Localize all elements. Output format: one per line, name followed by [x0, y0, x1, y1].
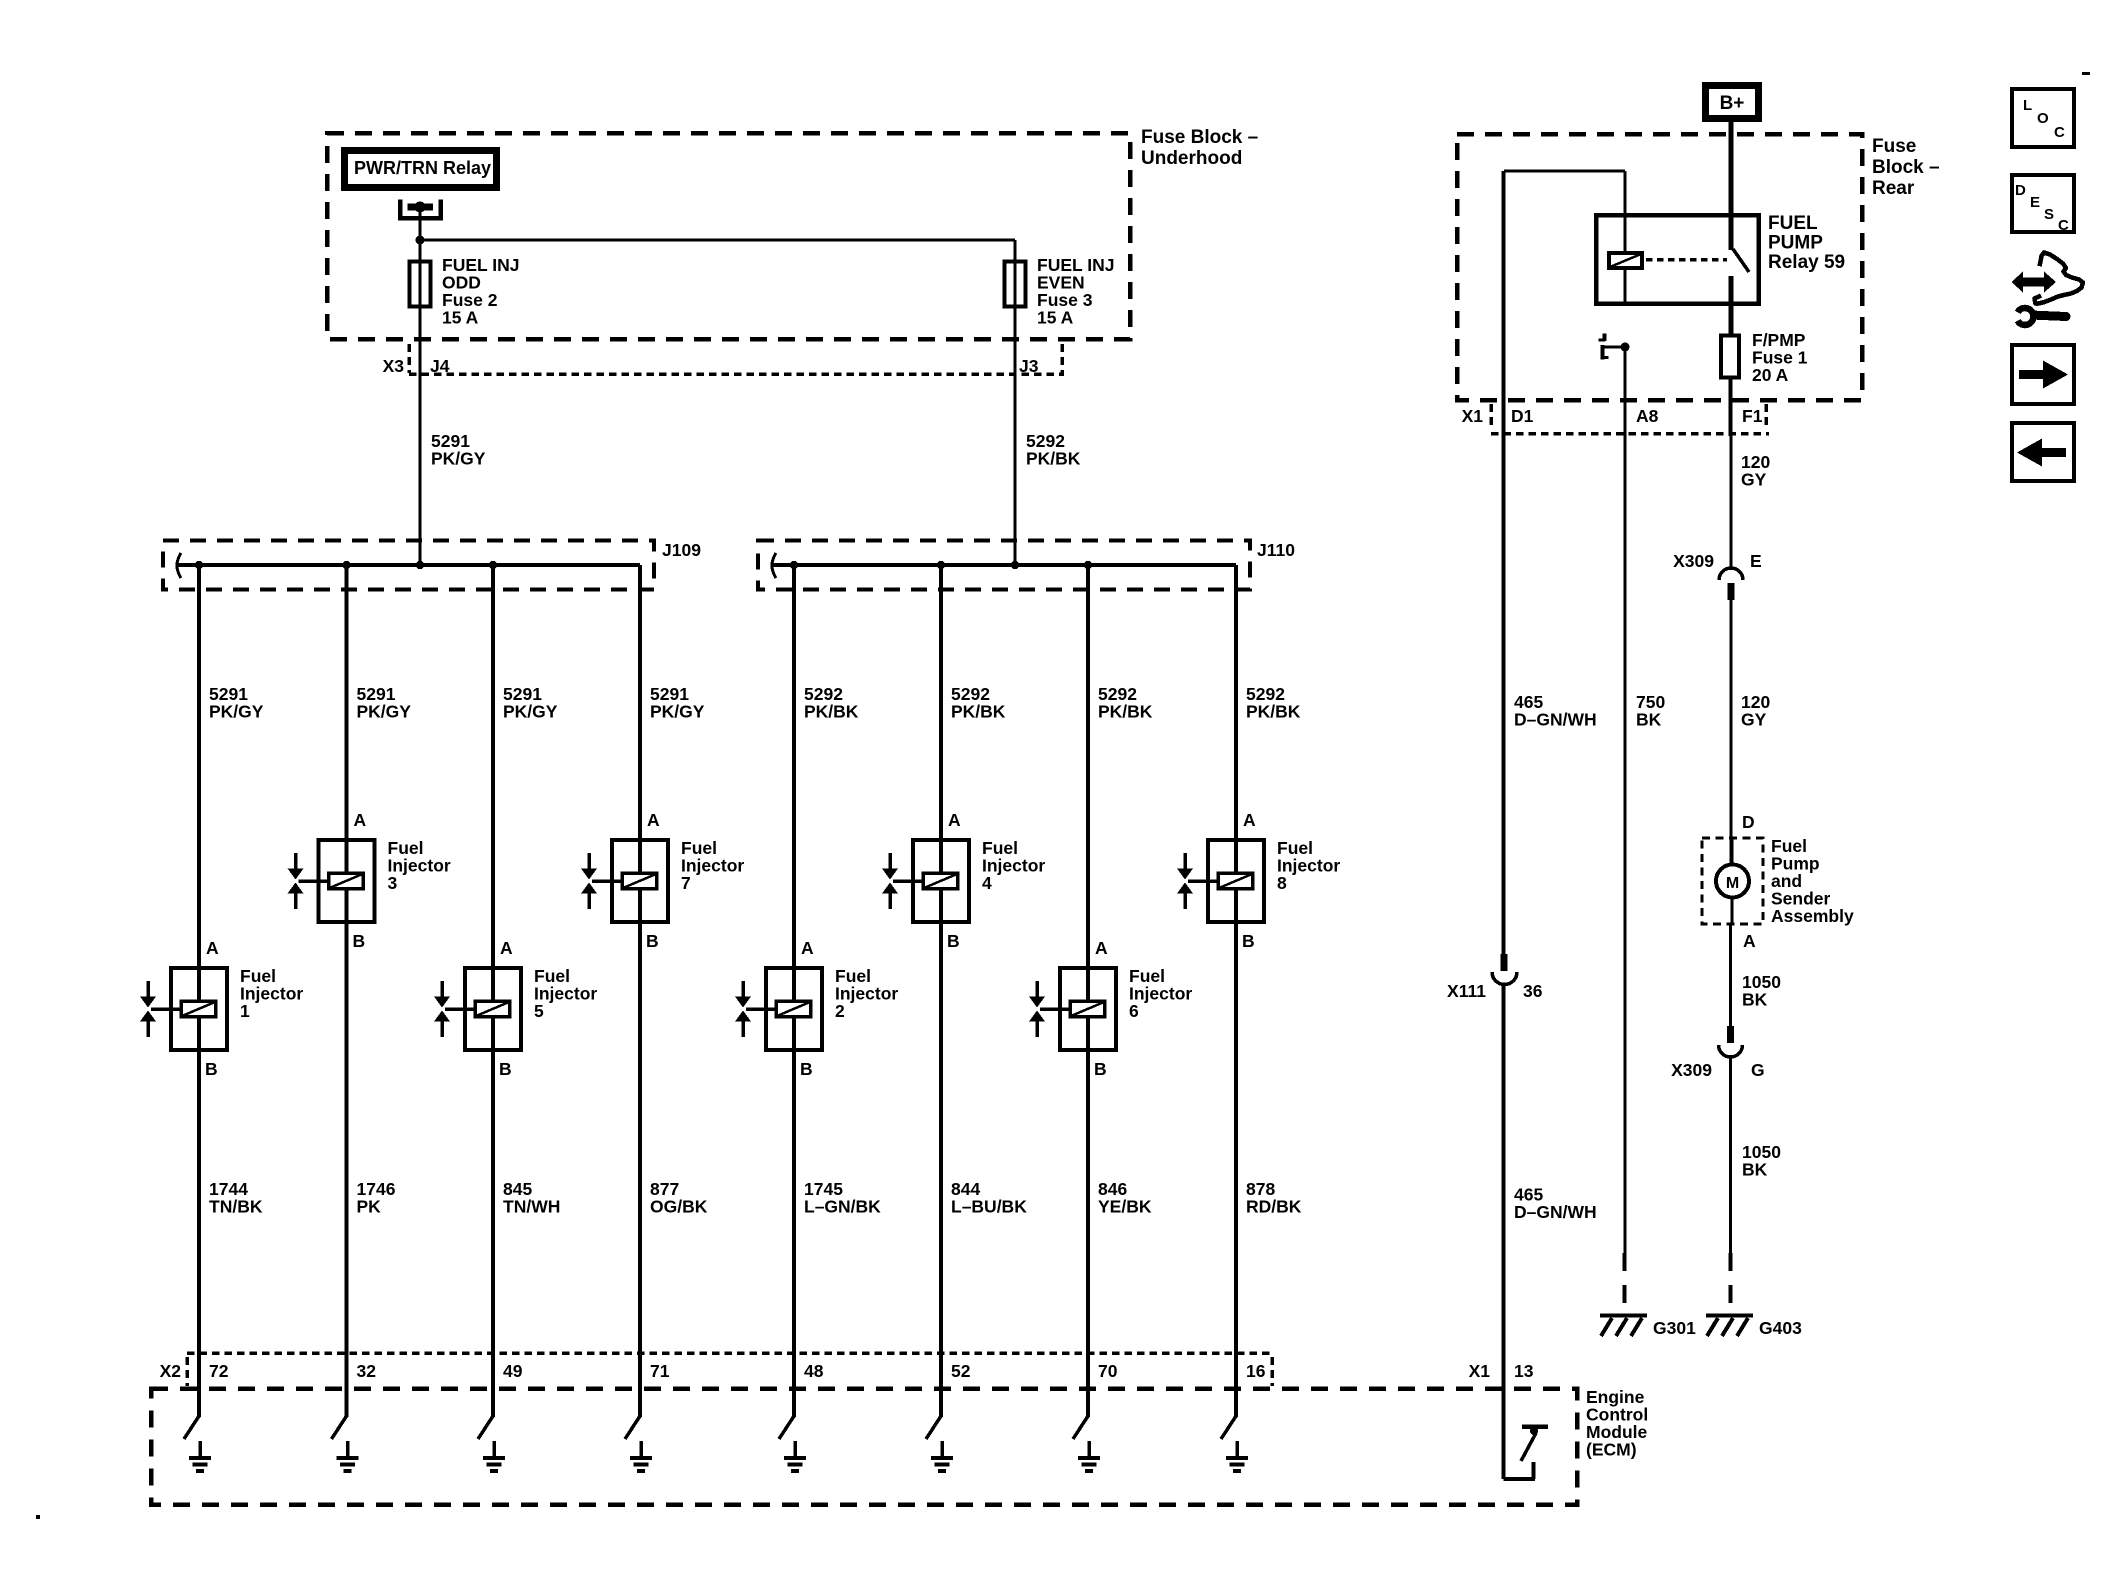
svg-text:B+: B+ [1720, 93, 1745, 114]
svg-text:J110: J110 [1257, 540, 1295, 560]
splice pack J110 dashed box [758, 541, 1250, 590]
DESC navigation button [2012, 175, 2074, 234]
svg-text:J3: J3 [1019, 356, 1039, 376]
pin 13 label (ECM X1) [1514, 1361, 1534, 1381]
svg-text:A: A [647, 810, 660, 830]
injector 4 valve nozzle symbol [882, 853, 922, 909]
wire 1746 PK lower segment [345, 924, 349, 1355]
wire 844 upper segment (injector 4) [939, 565, 943, 838]
svg-text:FUEL: FUEL [1768, 213, 1818, 234]
inline connector X309 pin G [1671, 1026, 1765, 1080]
injector 7 valve nozzle symbol [581, 853, 621, 909]
junction node coil to A8 [1621, 343, 1630, 352]
svg-text:A: A [1095, 938, 1108, 958]
splice pack J109 dashed box [163, 541, 654, 590]
svg-text:52: 52 [951, 1361, 971, 1381]
label 5291 PK/GY column 1 [209, 684, 264, 722]
label 844 L–BU/BK [951, 1179, 1027, 1217]
fuel injector 8 box [1208, 838, 1264, 924]
wire - down to fuse 3 [1014, 240, 1017, 260]
svg-text:A: A [801, 938, 814, 958]
svg-text:S: S [2044, 206, 2054, 223]
svg-text:4: 4 [982, 873, 992, 893]
wire 1745 L–GN/BK lower segment [792, 1052, 796, 1355]
fuse block - underhood dashed box [327, 133, 1130, 339]
terminal hook of J109 [177, 553, 181, 578]
junction node on J109 bus x=346.5 [342, 561, 350, 569]
pin 71 label (ECM X2) [650, 1361, 670, 1381]
svg-text:B: B [1094, 1059, 1107, 1079]
injector 8 valve nozzle symbol [1177, 853, 1217, 909]
injector 1 valve nozzle symbol [140, 981, 180, 1037]
injector 3 valve nozzle symbol [288, 853, 328, 909]
wire - fuse 1 to F1 pin [1729, 379, 1733, 436]
ground symbol pin 52 [931, 1441, 953, 1473]
pin A label fuel pump [1743, 931, 1756, 951]
pin B label injector 2 [800, 1059, 813, 1079]
wire 877 upper segment (injector 7) [638, 565, 642, 838]
svg-text:49: 49 [503, 1361, 523, 1381]
wire - relay output bus to even fuse [420, 239, 1015, 242]
ground symbol pin 71 [630, 1441, 652, 1473]
pin A label injector 5 [500, 938, 513, 958]
svg-text:B: B [205, 1059, 218, 1079]
svg-text:TN/BK: TN/BK [209, 1197, 263, 1217]
pin A label injector 7 [647, 810, 660, 830]
svg-text:15 A: 15 A [1037, 308, 1074, 328]
svg-text:3: 3 [388, 873, 398, 893]
svg-text:X309: X309 [1671, 1060, 1712, 1080]
svg-text:X111: X111 [1447, 981, 1486, 1001]
svg-text:B: B [800, 1059, 813, 1079]
svg-text:5: 5 [534, 1001, 544, 1021]
fuel injector 7 box [612, 838, 668, 924]
wire 120 GY to X309 E [1730, 434, 1733, 570]
svg-text:YE/BK: YE/BK [1098, 1197, 1152, 1217]
injector 6 coil [1070, 1001, 1105, 1017]
label 1050 BK upper [1742, 972, 1781, 1010]
injector 2 valve nozzle symbol [735, 981, 775, 1037]
injector 3 coil [329, 873, 364, 889]
label Fuel Injector 5 [534, 966, 597, 1021]
ground symbol pin 49 [483, 1441, 505, 1473]
svg-text:TN/WH: TN/WH [503, 1197, 560, 1217]
B+ battery feed box [1706, 86, 1759, 119]
connector row X3 with pins J4 and J3 [383, 344, 1064, 376]
wire 1050 BK pump to X309 G [1729, 924, 1732, 1026]
fuse F3 FUEL INJ EVEN 15A [1005, 260, 1026, 308]
svg-text:PK/BK: PK/BK [1026, 449, 1081, 469]
bus wire inside J109 [177, 563, 640, 567]
svg-text:20 A: 20 A [1752, 365, 1789, 385]
wire - coil branch to A8 pin [1624, 347, 1627, 436]
label Fuel Injector 8 [1277, 838, 1340, 893]
svg-text:G301: G301 [1653, 1318, 1696, 1338]
pin 16 label (ECM X2) [1246, 1361, 1266, 1381]
wire 846 YE/BK lower segment [1086, 1052, 1090, 1355]
junction node on J109 bus x=493 [489, 561, 497, 569]
svg-text:PWR/TRN Relay: PWR/TRN Relay [354, 158, 491, 178]
junction node on J110 bus x=1088 [1084, 561, 1092, 569]
svg-text:15 A: 15 A [442, 308, 479, 328]
injector 2 coil [776, 1001, 811, 1017]
relay 59 actuation dashed link [1646, 258, 1727, 262]
svg-text:C: C [2054, 124, 2065, 141]
connector row X1 D1 A8 F1 [1462, 404, 1769, 434]
svg-text:D–GN/WH: D–GN/WH [1514, 1202, 1597, 1222]
svg-text:PK/GY: PK/GY [431, 449, 486, 469]
svg-text:J4: J4 [430, 356, 450, 376]
svg-text:Block –: Block – [1872, 157, 1940, 178]
back arrow button [2012, 423, 2074, 481]
label 5292 PK/BK feed [1026, 431, 1081, 469]
fuel injector 4 box [913, 838, 969, 924]
junction node after PWR/TRN relay [416, 236, 425, 245]
svg-text:PK: PK [357, 1197, 382, 1217]
svg-text:OG/BK: OG/BK [650, 1197, 708, 1217]
fuel injector 6 box [1060, 966, 1116, 1052]
wire 1050 BK dashed drop to G403 [1729, 1253, 1733, 1312]
stray mark top right [2082, 72, 2090, 75]
label 877 OG/BK [650, 1179, 708, 1217]
label Fuel Injector 4 [982, 838, 1045, 893]
svg-text:E: E [2030, 194, 2040, 211]
svg-text:A: A [354, 810, 367, 830]
label FUEL PUMP Relay 59 [1768, 213, 1845, 273]
label 465 D-GN/WH lower [1514, 1185, 1597, 1223]
label Fuel Injector 7 [681, 838, 744, 893]
wire 1050 BK lower segment [1729, 1057, 1732, 1253]
wire 877 OG/BK lower segment [638, 924, 642, 1355]
junction node on J109 bus x=199 [195, 561, 203, 569]
svg-text:B: B [646, 931, 659, 951]
wire 5291 from J4 to J109 [419, 375, 422, 565]
junction node feed J110 [1011, 561, 1019, 569]
wire - down to fuse 2 [419, 240, 422, 260]
injector 6 valve nozzle symbol [1029, 981, 1069, 1037]
junction node feed J109 [416, 561, 424, 569]
svg-text:D: D [1742, 812, 1755, 832]
svg-text:D: D [2015, 182, 2026, 199]
wire B+ into fuse block [1729, 122, 1734, 215]
svg-text:G403: G403 [1759, 1318, 1802, 1338]
ECM driver switch pin 49 [478, 1355, 495, 1439]
junction node on J110 bus x=794 [790, 561, 798, 569]
wire 465 upper segment (D1) [1502, 171, 1506, 954]
pin D label fuel pump [1742, 812, 1755, 832]
svg-text:A: A [500, 938, 513, 958]
wire 844 L–BU/BK lower segment [939, 924, 943, 1355]
label G301 [1653, 1318, 1696, 1338]
svg-text:E: E [1750, 551, 1762, 571]
label Engine Control Module (ECM) [1586, 1387, 1648, 1460]
label Fuel Injector 1 [240, 966, 303, 1021]
label 1745 L–GN/BK [804, 1179, 881, 1217]
svg-text:D–GN/WH: D–GN/WH [1514, 710, 1597, 730]
label 750 BK mid [1636, 692, 1665, 730]
fuel pump and sender assembly dashed box [1702, 838, 1763, 924]
label X1 (ECM bottom) [1469, 1361, 1491, 1381]
ECM driver switch pin 52 [926, 1355, 943, 1439]
stray mark bottom left [36, 1515, 40, 1519]
pin B label injector 4 [947, 931, 960, 951]
fuel pump motor M [1716, 838, 1749, 924]
ground symbol pin 72 [189, 1441, 211, 1473]
pin 49 label (ECM X2) [503, 1361, 523, 1381]
pin B label injector 6 [1094, 1059, 1107, 1079]
wire 878 RD/BK lower segment [1234, 924, 1238, 1355]
LOC navigation button [2012, 89, 2074, 147]
svg-text:PK/GY: PK/GY [209, 702, 264, 722]
label 120 GY mid [1741, 692, 1770, 730]
ECM driver switch pin 72 [184, 1355, 201, 1439]
PWR/TRN Relay box [345, 151, 497, 188]
fuel injector 2 box [766, 966, 822, 1052]
svg-text:BK: BK [1742, 1160, 1768, 1180]
ground symbol pin 48 [784, 1441, 806, 1473]
wire 5292 from J3 to J110 [1014, 375, 1017, 565]
ground symbol pin 70 [1078, 1441, 1100, 1473]
forward arrow button [2012, 345, 2074, 404]
ground symbol pin 32 [337, 1441, 359, 1473]
pin B label injector 1 [205, 1059, 218, 1079]
wire 846 upper segment (injector 6) [1086, 565, 1090, 966]
label F/PMP Fuse 1 20 A [1752, 330, 1808, 385]
label FUEL INJ ODD Fuse 2 15 A [442, 255, 519, 328]
label 5292 PK/BK column 4 [951, 684, 1006, 722]
ECM driver switch pin 48 [779, 1355, 796, 1439]
svg-text:70: 70 [1098, 1361, 1118, 1381]
coil ground lever symbol at A8 [1599, 334, 1626, 360]
svg-text:2: 2 [835, 1001, 845, 1021]
ground G301 [1600, 1314, 1647, 1337]
pin B label injector 7 [646, 931, 659, 951]
wire - relay coil feed horizontal [1504, 170, 1625, 173]
label 120 GY upper [1741, 452, 1770, 490]
wire 878 upper segment (injector 8) [1234, 565, 1238, 838]
svg-text:72: 72 [209, 1361, 229, 1381]
svg-text:B: B [499, 1059, 512, 1079]
svg-text:Underhood: Underhood [1141, 148, 1242, 169]
svg-text:Fuse Block –: Fuse Block – [1141, 127, 1258, 148]
label Fuel Injector 6 [1129, 966, 1192, 1021]
svg-text:8: 8 [1277, 873, 1287, 893]
svg-text:B: B [947, 931, 960, 951]
svg-text:A: A [206, 938, 219, 958]
svg-text:F1: F1 [1742, 406, 1763, 426]
wire - coil branch down to relay [1624, 171, 1627, 215]
label Fuel Injector 3 [388, 838, 451, 893]
svg-text:PK/GY: PK/GY [650, 702, 705, 722]
svg-text:PUMP: PUMP [1768, 233, 1823, 254]
label Fuel Pump and Sender Assembly [1771, 836, 1854, 926]
label Fuse Block - Underhood [1141, 127, 1258, 169]
label 5292 PK/BK column 6 [1098, 684, 1153, 722]
svg-text:X1: X1 [1462, 406, 1484, 426]
label Fuel Injector 2 [835, 966, 898, 1021]
wire 845 upper segment (injector 5) [491, 565, 495, 966]
injector 7 coil [622, 873, 657, 889]
wire 120 GY mid segment [1730, 600, 1733, 864]
label Fuse Block - Rear [1872, 136, 1940, 199]
label 465 D-GN/WH mid [1514, 692, 1597, 730]
label 845 TN/WH [503, 1179, 560, 1217]
label 5292 PK/BK column 8 [1246, 684, 1301, 722]
svg-text:O: O [2037, 110, 2049, 127]
connector X2 right separator [1270, 1357, 1274, 1386]
svg-text:48: 48 [804, 1361, 824, 1381]
label 878 RD/BK [1246, 1179, 1302, 1217]
svg-text:Relay 59: Relay 59 [1768, 252, 1845, 273]
svg-text:6: 6 [1129, 1001, 1139, 1021]
svg-text:A: A [1243, 810, 1256, 830]
svg-text:X2: X2 [160, 1361, 182, 1381]
wire 465 D-GN/WH lower segment [1502, 984, 1506, 1388]
svg-text:L–GN/BK: L–GN/BK [804, 1197, 881, 1217]
pin 72 label (ECM X2) [209, 1361, 229, 1381]
label 5291 PK/GY feed [431, 431, 486, 469]
label J110 [1257, 540, 1295, 560]
label J109 [662, 540, 701, 560]
relay contact symbol [398, 200, 443, 241]
pin A label injector 1 [206, 938, 219, 958]
pin B label injector 8 [1242, 931, 1255, 951]
fuel injector 5 box [465, 966, 521, 1052]
pin 48 label (ECM X2) [804, 1361, 824, 1381]
wire 1746 upper segment (injector 3) [345, 565, 349, 838]
fuse F/PMP Fuse 1 20A [1721, 336, 1739, 378]
svg-text:PK/BK: PK/BK [1246, 702, 1301, 722]
label G403 [1759, 1318, 1802, 1338]
label X2 [160, 1361, 182, 1381]
ECM dashed box [151, 1389, 1577, 1505]
pin A label injector 4 [948, 810, 961, 830]
pin 32 label (ECM X2) [357, 1361, 377, 1381]
inline connector X309 pin E [1673, 551, 1762, 600]
pin A label injector 2 [801, 938, 814, 958]
fuse F2 FUEL INJ ODD 15A [410, 260, 431, 308]
label FUEL INJ EVEN Fuse 3 15 A [1037, 255, 1114, 328]
wire - fuse 2 to connector J4 [419, 308, 422, 378]
svg-text:7: 7 [681, 873, 691, 893]
svg-text:32: 32 [357, 1361, 377, 1381]
svg-text:Fuse: Fuse [1872, 136, 1916, 157]
pin A label injector 3 [354, 810, 367, 830]
wire 750 BK dashed drop to G301 [1623, 1253, 1627, 1312]
connector row X2 dotted line [187, 1351, 1272, 1355]
svg-text:B: B [353, 931, 366, 951]
pin B label injector 5 [499, 1059, 512, 1079]
svg-text:BK: BK [1636, 710, 1662, 730]
relay 59 switch contact [1729, 215, 1750, 306]
injector 8 coil [1218, 873, 1253, 889]
injector 4 coil [923, 873, 958, 889]
svg-text:A8: A8 [1636, 406, 1659, 426]
wire - fuse 3 to connector J3 [1014, 308, 1017, 378]
svg-text:13: 13 [1514, 1361, 1534, 1381]
svg-text:PK/BK: PK/BK [951, 702, 1006, 722]
wire - relay 87 to F/PMP fuse [1729, 306, 1734, 334]
label 5292 PK/BK column 2 [804, 684, 859, 722]
ground symbol pin 16 [1226, 1441, 1248, 1473]
wire 845 TN/WH lower segment [491, 1052, 495, 1355]
wire 750 BK upper segment [1624, 436, 1627, 1253]
relay 59 coil [1609, 215, 1642, 306]
svg-text:D1: D1 [1511, 406, 1534, 426]
hotlink icon arrows and wrench [2012, 253, 2084, 326]
label 1746 PK [357, 1179, 396, 1217]
svg-text:C: C [2058, 217, 2069, 234]
svg-text:B: B [1242, 931, 1255, 951]
svg-text:PK/GY: PK/GY [357, 702, 412, 722]
svg-text:X1: X1 [1469, 1361, 1491, 1381]
svg-text:PK/BK: PK/BK [804, 702, 859, 722]
pin 70 label (ECM X2) [1098, 1361, 1118, 1381]
svg-text:Rear: Rear [1872, 178, 1915, 199]
svg-text:RD/BK: RD/BK [1246, 1197, 1302, 1217]
svg-text:A: A [948, 810, 961, 830]
fuel injector 1 box [171, 966, 227, 1052]
svg-text:G: G [1751, 1060, 1765, 1080]
label 5291 PK/GY column 3 [357, 684, 412, 722]
ECM driver switch pin 70 [1073, 1355, 1090, 1439]
ECM driver switch pin 32 [332, 1355, 349, 1439]
svg-text:1: 1 [240, 1001, 250, 1021]
wire 1744 TN/BK lower segment [197, 1052, 201, 1355]
terminal hook of J110 [772, 553, 776, 578]
svg-text:36: 36 [1523, 981, 1543, 1001]
ECM low-side driver pin 13 symbol [1502, 1388, 1549, 1481]
wire 1744 upper segment (injector 1) [197, 565, 201, 966]
svg-text:71: 71 [650, 1361, 670, 1381]
svg-text:PK/BK: PK/BK [1098, 702, 1153, 722]
fuel injector 3 box [319, 838, 375, 924]
injector 5 valve nozzle symbol [434, 981, 474, 1037]
pin B label injector 3 [353, 931, 366, 951]
label 5291 PK/GY column 7 [650, 684, 705, 722]
svg-text:M: M [1726, 875, 1739, 892]
svg-text:X3: X3 [383, 356, 405, 376]
svg-text:GY: GY [1741, 710, 1767, 730]
fuse block - rear dashed box [1457, 134, 1862, 400]
ECM driver switch pin 71 [625, 1355, 642, 1439]
svg-text:PK/GY: PK/GY [503, 702, 558, 722]
connector X2 left separator [185, 1357, 189, 1386]
svg-text:16: 16 [1246, 1361, 1266, 1381]
ground G403 [1706, 1314, 1753, 1337]
label 1050 BK lower [1742, 1142, 1781, 1180]
pin A label injector 6 [1095, 938, 1108, 958]
svg-text:A: A [1743, 931, 1756, 951]
ECM driver switch pin 16 [1221, 1355, 1238, 1439]
injector 5 coil [475, 1001, 510, 1017]
label 846 YE/BK [1098, 1179, 1152, 1217]
FUEL PUMP Relay 59 box [1596, 215, 1759, 304]
label 1744 TN/BK [209, 1179, 263, 1217]
svg-text:BK: BK [1742, 990, 1768, 1010]
label 5291 PK/GY column 5 [503, 684, 558, 722]
svg-text:L: L [2023, 97, 2032, 114]
svg-text:L–BU/BK: L–BU/BK [951, 1197, 1027, 1217]
pin A label injector 8 [1243, 810, 1256, 830]
pin 52 label (ECM X2) [951, 1361, 971, 1381]
bus wire inside J110 [772, 563, 1236, 567]
inline connector X111 pin 36 [1447, 954, 1543, 1001]
svg-text:X309: X309 [1673, 551, 1714, 571]
wire 1745 upper segment (injector 2) [792, 565, 796, 966]
svg-text:Assembly: Assembly [1771, 906, 1854, 926]
injector 1 coil [181, 1001, 216, 1017]
